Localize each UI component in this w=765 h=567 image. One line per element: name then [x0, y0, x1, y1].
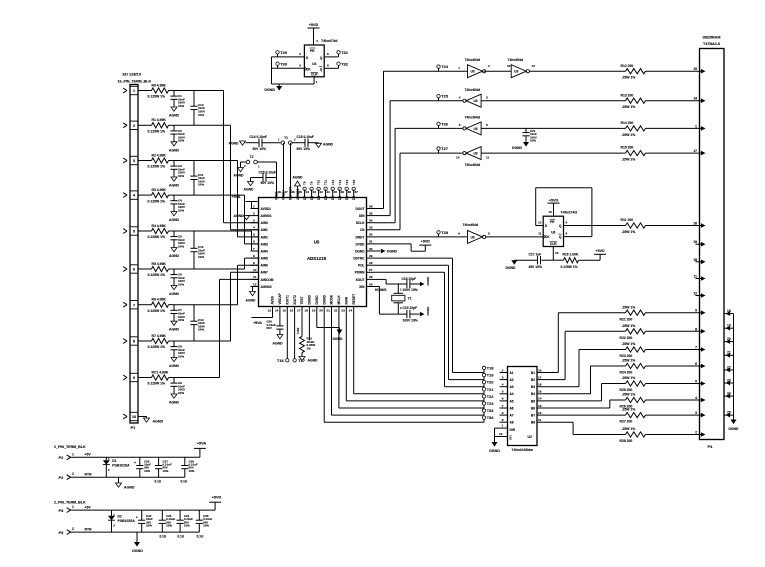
IC U5 ADS1218 body — [259, 198, 367, 307]
svg-text:2: 2 — [72, 472, 74, 476]
U5 top pin 47 VREF+ — [282, 189, 288, 200]
svg-text:+5V: +5V — [85, 506, 92, 510]
svg-text:R22 200: R22 200 — [620, 336, 633, 340]
svg-text:16: 16 — [290, 309, 294, 313]
diode D1 PGB102SA — [103, 457, 130, 477]
U5 left pin 3 AIN0 — [251, 219, 268, 226]
svg-text:10%: 10% — [198, 328, 204, 332]
svg-text:10%: 10% — [203, 524, 209, 528]
wire R6 row to U5 AIN pin — [174, 265, 259, 305]
svg-text:R1 4.99K: R1 4.99K — [152, 118, 167, 122]
U5 bottom pin 21 MODE — [327, 295, 334, 315]
resistor R2 4.99K — [148, 153, 169, 168]
svg-text:DGND: DGND — [426, 306, 430, 316]
svg-text:24: 24 — [727, 392, 731, 396]
svg-text:A5: A5 — [510, 399, 514, 403]
svg-text:10%: 10% — [144, 469, 150, 473]
svg-text:50V 10%: 50V 10% — [261, 181, 274, 185]
svg-text:MCLK: MCLK — [337, 295, 341, 305]
svg-text:9: 9 — [253, 261, 255, 265]
svg-text:B5: B5 — [531, 399, 535, 403]
svg-text:10%: 10% — [189, 469, 195, 473]
svg-text:9: 9 — [695, 309, 697, 313]
svg-text:+5VD: +5VD — [309, 23, 319, 27]
connector P4 right pin 22 — [724, 365, 734, 372]
svg-text:35V 10%: 35V 10% — [529, 265, 542, 269]
U5 top pin 37 D0 — [352, 190, 358, 201]
svg-text:DB25RAM: DB25RAM — [703, 36, 721, 40]
svg-text:16: 16 — [538, 383, 542, 387]
svg-text:T16: T16 — [277, 358, 285, 363]
svg-text:D1: D1 — [112, 459, 116, 463]
U5 bottom pin 18 DGND — [304, 294, 311, 314]
capacitor C11 differential — [190, 161, 205, 196]
svg-text:Q: Q — [320, 56, 323, 60]
svg-text:AIN2: AIN2 — [261, 235, 268, 239]
svg-text:10%: 10% — [198, 183, 204, 187]
capacitor C15 0.10uF — [297, 135, 319, 151]
svg-text:+5VA: +5VA — [197, 442, 207, 446]
U5 left pin 1 AVDD1 — [251, 204, 272, 211]
connector P4 DB25RAM header label — [703, 36, 721, 47]
svg-text:B6: B6 — [531, 406, 535, 410]
resistor R14 200 — [621, 121, 646, 137]
connector P4 left pin 1 — [695, 124, 705, 130]
wire U2 B6 to R26 row — [545, 400, 626, 408]
svg-text:R14 200: R14 200 — [621, 121, 634, 125]
svg-text:Y1: Y1 — [408, 297, 412, 301]
svg-text:U3: U3 — [514, 70, 518, 74]
svg-text:25: 25 — [369, 282, 373, 286]
connector P1 pin 1 — [123, 86, 138, 94]
svg-text:6: 6 — [459, 123, 461, 127]
svg-text:T26: T26 — [441, 121, 449, 126]
svg-text:D0: D0 — [352, 196, 356, 200]
U5 right pin 26 XOUT — [356, 275, 375, 282]
svg-text:B8: B8 — [531, 421, 535, 425]
svg-text:23: 23 — [341, 309, 345, 313]
U5 bottom pin 16 IOUT2 — [290, 295, 297, 315]
svg-text:74hct245dw: 74hct245dw — [511, 448, 533, 452]
svg-text:AGND: AGND — [229, 142, 240, 146]
svg-text:13: 13 — [555, 251, 559, 255]
svg-text:0.1U: 0.1U — [181, 479, 188, 483]
U2 left pin 9 A8 with test point T34 — [482, 415, 514, 424]
svg-text:0.125W 1%: 0.125W 1% — [148, 345, 166, 349]
connector P4 left pin 15 — [693, 67, 705, 73]
svg-text:7: 7 — [253, 247, 255, 251]
wire U5 bottom pin 22 to U2 A6 — [339, 315, 484, 409]
svg-text:U3: U3 — [471, 235, 475, 239]
svg-text:9: 9 — [566, 221, 568, 225]
svg-text:DRDY: DRDY — [355, 235, 365, 239]
wire A1 terminal stub — [453, 372, 485, 374]
svg-text:.25W 1%: .25W 1% — [622, 158, 636, 162]
svg-text:30: 30 — [369, 247, 373, 251]
wire U2 B4 to R24 row — [545, 366, 626, 394]
svg-text:1: 1 — [253, 204, 255, 208]
svg-text:T12: T12 — [331, 179, 335, 185]
test point T12 on U5 top pin 40 — [331, 179, 335, 190]
svg-text:AVDD1: AVDD1 — [261, 207, 272, 211]
svg-text:.25W 1%: .25W 1% — [622, 76, 636, 80]
wire R7 row to U5 AIN pin — [174, 272, 259, 341]
connector P3 pin1 — [59, 505, 77, 513]
wire CS to T27 row — [375, 153, 464, 230]
ground AGND right of C15 — [316, 143, 334, 148]
connector P1 pin 2 — [123, 121, 138, 129]
U5 right pin 29 DSYNC — [353, 254, 374, 261]
svg-text:14: 14 — [693, 97, 697, 101]
connector P4 body — [700, 49, 725, 450]
svg-text:1: 1 — [695, 124, 697, 128]
capacitor C19 22pF — [403, 306, 420, 322]
svg-text:.25W 1%: .25W 1% — [622, 305, 636, 309]
inverter U3C 74hct04d — [459, 88, 488, 107]
svg-text:37: 37 — [355, 190, 359, 194]
test point T24 — [437, 64, 449, 71]
wire U3B out to R12 — [529, 70, 625, 72]
wire U3A out to U3B — [484, 70, 512, 72]
svg-text:T22: T22 — [487, 394, 495, 399]
U5 right pin 27 PDWN — [355, 268, 375, 275]
ground AGND below C16 — [244, 178, 255, 192]
svg-text:2: 2 — [502, 368, 504, 372]
svg-text:T10: T10 — [317, 179, 321, 185]
connector P4 unconnected pin 12 — [693, 292, 705, 298]
svg-text:AGND: AGND — [153, 420, 164, 424]
svg-text:R3 4.99K: R3 4.99K — [152, 188, 167, 192]
svg-text:D2: D2 — [338, 196, 342, 200]
resistor R1 4.99K — [148, 118, 169, 133]
svg-text:27: 27 — [369, 268, 373, 272]
test point T32 — [337, 61, 349, 68]
wire R26 to P4 pin 4 — [646, 399, 700, 401]
svg-text:PR: PR — [550, 220, 555, 224]
svg-text:C16 0.10uF: C16 0.10uF — [259, 171, 276, 175]
wire P1 pin7 to resistor R6 — [138, 304, 152, 306]
svg-text:43: 43 — [312, 190, 316, 194]
capacitor C17 1uF — [514, 253, 553, 270]
svg-text:0.125W 1%: 0.125W 1% — [561, 265, 578, 269]
svg-text:18: 18 — [538, 368, 542, 372]
wire VREF+ vertical — [283, 143, 285, 190]
connector P4 left pin 7 — [695, 346, 705, 352]
svg-text:T34: T34 — [487, 415, 495, 420]
U5 right pin 28 POL — [358, 261, 375, 268]
svg-text:U3: U3 — [474, 152, 478, 156]
U5 top pin 42 D5 — [317, 190, 323, 201]
ground DGND below P3 — [132, 532, 143, 553]
svg-text:U2: U2 — [528, 435, 532, 439]
power +5VA at U5 pin1 — [232, 195, 258, 209]
svg-text:AGND: AGND — [234, 174, 245, 178]
inverter U3A 74hct04d — [458, 58, 490, 78]
U2 left pin 4 A3 with test point T20 — [482, 380, 514, 389]
connector P2 2_PIN_TERM_BLK label — [54, 445, 86, 449]
test point T30 — [276, 61, 288, 68]
svg-text:2: 2 — [253, 211, 255, 215]
connector P3 2_PIN_TERM_BLK label — [54, 500, 86, 504]
U5 bottom pin 19 DVDD — [312, 295, 319, 315]
U5 right pin 25 XIN — [359, 282, 374, 289]
svg-text:MODE: MODE — [330, 295, 334, 305]
wire U3E to R15 — [481, 152, 625, 154]
svg-text:DGND: DGND — [308, 294, 312, 304]
svg-text:2: 2 — [488, 64, 490, 68]
svg-text:T28: T28 — [441, 230, 449, 235]
svg-text:12: 12 — [538, 221, 542, 225]
svg-text:AIN5: AIN5 — [261, 257, 268, 261]
svg-text:13: 13 — [507, 64, 511, 68]
ground DGND at U4 — [264, 84, 282, 92]
svg-text:7: 7 — [502, 404, 504, 408]
svg-text:T31: T31 — [341, 50, 349, 55]
svg-text:P4: P4 — [708, 444, 714, 449]
wire R21 to P4 pin 9 — [646, 312, 700, 314]
svg-text:DGND: DGND — [426, 276, 430, 286]
svg-text:9: 9 — [133, 376, 135, 380]
svg-text:1%: 1% — [307, 346, 312, 350]
resistor R3 4.99K — [148, 188, 169, 203]
svg-text:U5: U5 — [314, 240, 320, 245]
svg-text:10: 10 — [549, 210, 553, 214]
power +5VA at U5 pin13 — [252, 315, 273, 326]
svg-text:11: 11 — [694, 275, 698, 279]
inverter U3E 74hct04d — [456, 147, 490, 167]
U2 right pin 16 B3 — [531, 383, 545, 390]
svg-text:15: 15 — [693, 67, 697, 71]
svg-text:RTN: RTN — [85, 473, 93, 477]
U5 bottom pin 22 MCLK — [334, 295, 341, 315]
svg-text:5: 5 — [253, 233, 255, 237]
svg-text:24: 24 — [349, 309, 353, 313]
wire P1 pin2 to resistor R1 — [138, 124, 152, 126]
svg-text:R12 200: R12 200 — [621, 64, 634, 68]
svg-text:5: 5 — [695, 380, 697, 384]
svg-text:35: 35 — [369, 211, 373, 215]
svg-text:CLR: CLR — [550, 242, 557, 246]
svg-text:100V 10%: 100V 10% — [403, 288, 418, 292]
svg-text:18: 18 — [693, 258, 697, 262]
wire U4 Qbar pin6 to T32 — [324, 64, 338, 69]
wire P1 pin9 to resistor RC1 — [138, 377, 152, 379]
svg-text:U3: U3 — [471, 70, 475, 74]
connector P4 unconnected pin 11 — [694, 275, 706, 281]
svg-text:T18: T18 — [487, 366, 495, 371]
svg-text:.25W 1%: .25W 1% — [622, 427, 636, 431]
wire R12 to P4 pin15 — [646, 70, 700, 72]
svg-text:4: 4 — [316, 39, 318, 43]
svg-text:3: 3 — [133, 159, 135, 163]
svg-text:6: 6 — [502, 397, 504, 401]
connector P4 right pin 20 — [724, 337, 734, 344]
ground DGND below C17 — [506, 260, 518, 270]
wire U6 Q pin9 to R11 — [564, 221, 626, 226]
capacitor C24 0.1uF P3 — [177, 510, 194, 538]
svg-text:74hct74d: 74hct74d — [561, 210, 578, 214]
wire P1 pin6 to resistor R5 — [138, 268, 152, 270]
test point T8 on U5 top pin 44 — [303, 181, 307, 190]
svg-text:T20: T20 — [487, 380, 495, 385]
svg-text:10: 10 — [132, 415, 136, 419]
svg-text:IOUT1: IOUT1 — [286, 295, 290, 305]
resistor R4 4.99K — [148, 224, 169, 239]
test point T28 — [437, 230, 449, 237]
wire U5 bottom pin 24 to U2 A4 — [354, 315, 484, 394]
svg-text:7: 7 — [695, 346, 697, 350]
svg-text:AGND: AGND — [169, 148, 180, 152]
svg-text:3: 3 — [695, 411, 697, 415]
connector P1 pin 6 — [123, 265, 138, 273]
svg-text:1: 1 — [458, 66, 460, 70]
ground DGND at P4 rail — [729, 420, 740, 432]
U5 right pin 36 DOUT — [355, 204, 374, 211]
jumper T2 — [244, 155, 260, 169]
wire R22 to P4 pin 8 — [646, 330, 700, 332]
svg-text:10: 10 — [253, 268, 257, 272]
wire U2 B7 to R27 row — [545, 414, 626, 416]
svg-text:SCLK: SCLK — [356, 221, 365, 225]
svg-text:4: 4 — [133, 194, 136, 198]
svg-text:0.125W 1%: 0.125W 1% — [148, 235, 166, 239]
wire R23 to P4 pin 7 — [646, 349, 700, 351]
U5 right pin 35 DIN — [359, 211, 375, 218]
svg-text:T25: T25 — [441, 94, 449, 99]
svg-text:10%: 10% — [163, 469, 169, 473]
U5 bottom pin 13 AVSS — [268, 296, 275, 314]
svg-text:3: 3 — [486, 95, 488, 99]
capacitor C14 0.10uF — [250, 135, 281, 151]
svg-text:+5VD: +5VD — [212, 495, 222, 499]
wire REFOUT vertical — [290, 143, 292, 190]
svg-text:28: 28 — [369, 261, 373, 265]
wire P3 +5V rail — [77, 506, 216, 511]
svg-text:T24: T24 — [441, 64, 449, 69]
svg-text:U4: U4 — [312, 62, 316, 66]
svg-text:14: 14 — [275, 309, 279, 313]
svg-text:34: 34 — [369, 219, 373, 223]
capacitor C27 0.1uF P2 — [155, 457, 172, 483]
wire R2 row to U5 AIN pin — [174, 161, 259, 237]
connector P4 unconnected pin 19 — [693, 240, 705, 246]
wire P2 +5V rail — [77, 453, 200, 458]
wire U5 pin18 stub — [308, 315, 310, 341]
svg-text:10%: 10% — [178, 174, 184, 178]
svg-text:R7 4.99K: R7 4.99K — [152, 334, 167, 338]
connector P4 right pin 24 — [724, 392, 734, 399]
resistor R28 200 — [620, 427, 646, 443]
wire RC1 row to U5 AIN pin — [174, 279, 259, 377]
svg-text:.25W 1%: .25W 1% — [622, 393, 636, 397]
test point T29 — [276, 50, 288, 57]
wire U4 inputs to DGND rail — [272, 57, 318, 84]
svg-text:R28 200: R28 200 — [620, 439, 633, 443]
resistor R12 200 — [621, 64, 646, 80]
U5 bottom pin 15 IOUT1 — [282, 295, 289, 315]
wire R0 output — [169, 90, 175, 92]
svg-text:DGND: DGND — [506, 266, 517, 270]
svg-text:2: 2 — [299, 52, 301, 56]
svg-text:AIN3: AIN3 — [261, 242, 268, 246]
svg-text:DGND: DGND — [322, 294, 326, 304]
svg-text:18: 18 — [727, 309, 731, 313]
svg-text:5: 5 — [502, 390, 504, 394]
svg-text:DVDD: DVDD — [315, 295, 319, 305]
capacitor C12 differential — [190, 231, 205, 269]
svg-text:50V: 50V — [267, 326, 272, 330]
U5 left pin 7 AIN4 — [251, 247, 268, 254]
svg-text:T9: T9 — [310, 181, 314, 185]
test point T26 — [437, 121, 449, 128]
connector P1 16_PIN_TERM_BLK header label — [118, 72, 152, 84]
U5 right pin 30 DGND — [355, 247, 374, 254]
wire R11 to P4 pin16 — [646, 225, 700, 227]
svg-text:3: 3 — [502, 375, 504, 379]
svg-text:10%: 10% — [178, 139, 184, 143]
svg-text:T11: T11 — [324, 180, 328, 185]
svg-text:74hct74d: 74hct74d — [321, 39, 338, 43]
svg-text:TEST: TEST — [300, 296, 304, 304]
svg-text:RESET: RESET — [352, 294, 356, 305]
wire U3C to R13 — [481, 100, 625, 102]
svg-text:R6 4.99K: R6 4.99K — [152, 298, 167, 302]
svg-text:T19: T19 — [487, 373, 495, 378]
wire XIN to crystal — [375, 287, 407, 315]
svg-text:IOUT2: IOUT2 — [293, 295, 297, 305]
svg-text:0.125W 1%: 0.125W 1% — [148, 199, 166, 203]
svg-text:C19 22pF: C19 22pF — [403, 306, 418, 310]
svg-text:17: 17 — [297, 309, 301, 313]
svg-text:T13: T13 — [338, 179, 342, 185]
wire R3 output — [169, 194, 175, 196]
svg-text:AGND2: AGND2 — [261, 285, 272, 289]
wire SCLK to T26 row — [375, 128, 464, 222]
ground AGND below P2 — [116, 477, 135, 489]
U5 bottom pin 14 VBCAP — [275, 292, 282, 314]
wire T30 to U4 CK pin3 — [272, 64, 305, 69]
svg-text:U3: U3 — [474, 127, 478, 131]
svg-text:PR: PR — [310, 49, 315, 53]
svg-text:DGND: DGND — [387, 250, 398, 254]
svg-text:CK: CK — [306, 68, 311, 72]
svg-text:+5VD: +5VD — [596, 249, 605, 253]
svg-text:RAM: RAM — [345, 297, 349, 305]
wire R24 to P4 pin 6 — [646, 365, 700, 367]
svg-text:17: 17 — [538, 375, 542, 379]
svg-text:8: 8 — [488, 231, 490, 235]
svg-text:DIN: DIN — [359, 214, 365, 218]
wire P3 RTN rail — [77, 528, 200, 533]
svg-text:11: 11 — [538, 418, 542, 422]
svg-text:19: 19 — [312, 309, 316, 313]
ground AGND at U5 pin2 — [234, 214, 251, 220]
ground DGND at U5 pin19 — [317, 315, 343, 342]
svg-text:Q: Q — [559, 224, 562, 228]
svg-text:VBCAP: VBCAP — [278, 292, 282, 304]
svg-text:+5VA: +5VA — [232, 195, 241, 199]
svg-text:A8: A8 — [510, 421, 514, 425]
U5 top pin 43 D6 — [310, 190, 316, 201]
U2 right pin 11 B8 — [531, 418, 545, 425]
wire R15 to P4 pin17 — [646, 152, 700, 154]
svg-text:AIN6: AIN6 — [261, 264, 268, 268]
svg-text:0.125W 1%: 0.125W 1% — [148, 165, 166, 169]
connector P4 right pin 21 — [724, 351, 734, 358]
resistor R16 1.00K — [553, 253, 579, 270]
svg-text:10%: 10% — [198, 113, 204, 117]
wire R13 to P4 pin14 — [646, 100, 700, 102]
